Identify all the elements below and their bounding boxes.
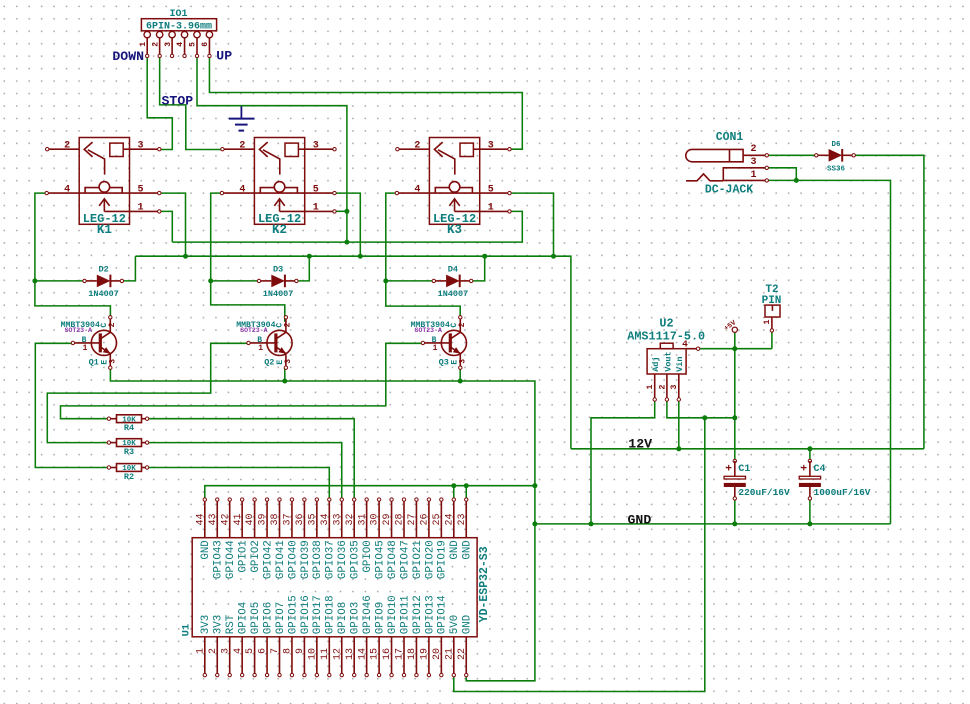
svg-text:GND: GND (449, 540, 461, 559)
svg-text:Vin: Vin (675, 356, 685, 371)
svg-text:41: 41 (233, 513, 244, 525)
svg-text:3: 3 (313, 140, 319, 151)
svg-text:25: 25 (432, 513, 443, 525)
relay K2 pin 3 (305, 148, 335, 150)
wire R4 right to U1 GPIO35 (147, 419, 354, 500)
IC U1 pin 13 GPIO3 (353, 637, 355, 675)
svg-text:8: 8 (283, 648, 294, 654)
IC U1 pin 22 GND (465, 637, 467, 675)
regulator U2 pin 3 Vin (678, 374, 680, 400)
svg-text:Adj: Adj (651, 356, 661, 371)
relay K2 pin 2 (222, 148, 254, 150)
svg-text:GPIO41: GPIO41 (275, 540, 287, 579)
wire K1 pin4 to D2 anode and Q1 collector (35, 193, 111, 317)
svg-text:DOWN: DOWN (112, 49, 144, 64)
svg-text:D3: D3 (273, 265, 283, 275)
wire Q1 base to R2 (35, 343, 109, 467)
IC U1 pin 44 GND (204, 500, 206, 538)
resistor R3 10K (109, 442, 117, 444)
transistor Q1 (91, 330, 116, 355)
wire IO1 pin2 to K2 pin2 (STOP net) (160, 56, 223, 150)
svg-text:Q2: Q2 (264, 357, 274, 367)
svg-text:43: 43 (208, 513, 219, 525)
IC U1 pin 11 GPIO18 (328, 637, 330, 675)
wire C4 to 12V rail (809, 449, 811, 461)
wire relay common horizontal net (172, 211, 522, 242)
wire IO1 pin1 to K1 pin3 (DOWN net) (147, 56, 172, 150)
svg-text:R2: R2 (124, 472, 134, 482)
relay K3 pin 2 (397, 148, 429, 150)
svg-text:4: 4 (682, 339, 688, 350)
svg-text:STOP: STOP (162, 94, 194, 109)
svg-text:26: 26 (420, 513, 431, 525)
svg-text:GPIO35: GPIO35 (350, 540, 362, 579)
IC U1 pin 25 GPIO19 (440, 500, 442, 538)
wire GND rail (535, 523, 891, 525)
pin header T2 pin 1 (771, 317, 773, 330)
IC U1 pin 19 GPIO13 (428, 637, 430, 675)
svg-text:4: 4 (64, 184, 70, 195)
wire C4 to GND rail (809, 498, 811, 524)
IC U1 YD-ESP32-S3 (192, 538, 477, 637)
svg-text:42: 42 (220, 513, 231, 525)
svg-text:2: 2 (108, 322, 117, 327)
svg-text:GPIO9: GPIO9 (375, 602, 387, 634)
svg-text:Vout: Vout (663, 351, 673, 371)
svg-text:GPIO7: GPIO7 (275, 602, 287, 634)
svg-text:2: 2 (64, 140, 70, 151)
wire IO1 pin6 to K3 pin3 (UP net) (209, 56, 522, 149)
relay K2 pin 4 (222, 192, 255, 194)
svg-text:1: 1 (195, 648, 206, 654)
svg-text:GPIO45: GPIO45 (375, 540, 387, 579)
svg-text:37: 37 (283, 513, 294, 525)
IC U1 pin 34 GPIO37 (328, 500, 330, 538)
svg-text:2: 2 (284, 322, 293, 327)
wire K2 pin5 to coil-supply (335, 193, 361, 256)
wire CON1 pin2 to D6 anode (767, 154, 818, 156)
connector IO1 pin 3 (169, 31, 175, 37)
IC U1 pin 24 GND (453, 500, 455, 538)
svg-text:GPIO48: GPIO48 (387, 540, 399, 579)
IC U1 pin 33 GPIO36 (341, 500, 343, 538)
svg-text:3: 3 (164, 42, 173, 47)
resistor R4 10K (109, 418, 117, 420)
svg-text:13: 13 (345, 648, 356, 660)
IC U1 pin 38 GPIO41 (279, 500, 281, 538)
svg-text:18: 18 (407, 648, 418, 660)
svg-text:GND: GND (462, 540, 474, 559)
wire D4 anode (386, 280, 435, 282)
wire K1 pin1 to common net (160, 211, 173, 242)
relay K1 pin 5 (130, 192, 160, 194)
svg-text:5: 5 (313, 184, 319, 195)
svg-text:GPIO11: GPIO11 (399, 595, 411, 634)
svg-text:GPIO38: GPIO38 (312, 540, 324, 579)
wire K2 pin1 stub to riser (335, 210, 347, 212)
wire +5V flag stem (734, 332, 736, 348)
diode D2 (85, 280, 97, 282)
svg-text:Q3: Q3 (439, 357, 449, 367)
IC U1 pin 8 GPIO15 (291, 637, 293, 675)
svg-text:38: 38 (270, 513, 281, 525)
svg-text:GPIO43: GPIO43 (213, 540, 225, 579)
svg-text:28: 28 (395, 513, 406, 525)
IC U1 pin 18 GPIO12 (415, 637, 417, 675)
svg-text:22: 22 (457, 648, 468, 660)
svg-text:12: 12 (332, 648, 343, 660)
IC U1 pin 9 GPIO16 (303, 637, 305, 675)
svg-text:AMS1117-5.0: AMS1117-5.0 (627, 330, 705, 344)
svg-text:35: 35 (307, 513, 318, 525)
svg-text:6PIN-3.96mm: 6PIN-3.96mm (146, 22, 212, 33)
svg-text:CON1: CON1 (716, 131, 744, 144)
svg-text:SOT23-A: SOT23-A (65, 327, 92, 334)
wire Q3 emitter stub (459, 368, 461, 381)
svg-text:5: 5 (245, 648, 256, 654)
wire U2 pin1 GND (591, 400, 655, 524)
svg-text:GPIO13: GPIO13 (424, 595, 436, 634)
svg-text:1N4007: 1N4007 (263, 289, 294, 299)
wire U1 pin23 GND stub (465, 486, 467, 500)
svg-text:33: 33 (332, 513, 343, 525)
svg-text:2: 2 (239, 140, 245, 151)
svg-text:R4: R4 (124, 423, 134, 433)
net flag +5V (732, 327, 737, 332)
svg-text:1: 1 (645, 385, 655, 390)
IC U1 pin 5 GPIO5 (254, 637, 256, 675)
svg-text:GPIO46: GPIO46 (362, 595, 374, 634)
connector IO1 pin 5 (194, 31, 200, 37)
IC U1 pin 30 GPIO45 (378, 500, 380, 538)
svg-text:U1: U1 (181, 624, 193, 637)
svg-text:2: 2 (750, 144, 756, 155)
svg-text:D6: D6 (831, 141, 841, 149)
IC U1 pin 36 GPIO39 (303, 500, 305, 538)
wire R2 right to U1 GPIO37 (147, 468, 329, 500)
svg-text:1: 1 (313, 203, 319, 214)
svg-text:20: 20 (432, 648, 443, 660)
svg-text:GPIO19: GPIO19 (437, 540, 449, 579)
svg-text:1: 1 (139, 42, 148, 47)
svg-text:GPIO17: GPIO17 (312, 595, 324, 634)
resistor R2 10K (109, 467, 117, 469)
svg-text:GPIO21: GPIO21 (412, 540, 424, 579)
capacitor C1 (733, 459, 736, 462)
wire D2 cathode to coil-supply rail (122, 256, 135, 281)
svg-text:GPIO3: GPIO3 (350, 602, 362, 634)
svg-text:6: 6 (258, 648, 269, 654)
svg-text:GPIO10: GPIO10 (387, 595, 399, 634)
IC U1 pin 42 GPIO44 (229, 500, 231, 538)
svg-text:GPIO16: GPIO16 (300, 595, 312, 634)
connector IO1 (141, 19, 216, 31)
svg-text:6: 6 (201, 42, 210, 47)
svg-text:1N4007: 1N4007 (438, 289, 469, 299)
connector CON1 pin 3 (723, 168, 767, 181)
svg-text:40: 40 (245, 513, 256, 525)
relay K1 pin 2 (47, 148, 79, 150)
wire Q2 emitter stub (284, 368, 286, 381)
svg-text:32: 32 (345, 513, 356, 525)
svg-text:16: 16 (382, 648, 393, 660)
svg-text:GPIO0: GPIO0 (362, 540, 374, 572)
svg-text:SOT23-A: SOT23-A (415, 327, 442, 334)
svg-text:1N4007: 1N4007 (88, 289, 119, 299)
svg-text:GPIO1: GPIO1 (238, 540, 250, 572)
svg-text:9: 9 (295, 648, 306, 654)
IC U1 pin 16 GPIO10 (391, 637, 393, 675)
wire +5V vertical through C1 to GND rail (734, 349, 736, 461)
svg-text:3V3: 3V3 (213, 615, 225, 634)
svg-text:GND: GND (462, 615, 474, 634)
IC U1 pin 3 RST (229, 637, 231, 675)
svg-text:23: 23 (457, 513, 468, 525)
svg-text:1: 1 (762, 320, 772, 325)
svg-text:27: 27 (407, 513, 418, 525)
IC U1 pin 4 GPIO4 (241, 637, 243, 675)
wire R3 right to U1 GPIO36 (147, 443, 342, 500)
IC U1 pin 12 GPIO8 (341, 637, 343, 675)
svg-text:30: 30 (370, 513, 381, 525)
svg-text:GPIO8: GPIO8 (337, 602, 349, 634)
connector IO1 pin 1 (144, 31, 150, 37)
IC U1 pin 41 GPIO1 (241, 500, 243, 538)
svg-text:19: 19 (420, 648, 431, 660)
IC U1 pin 26 GPIO20 (428, 500, 430, 538)
svg-text:12V: 12V (628, 436, 652, 451)
svg-text:+: + (725, 463, 732, 475)
IC U1 pin 39 GPIO42 (266, 500, 268, 538)
svg-text:39: 39 (258, 513, 269, 525)
svg-text:+: + (800, 463, 807, 475)
svg-text:11: 11 (320, 648, 331, 660)
svg-text:GPIO18: GPIO18 (325, 595, 337, 634)
svg-text:GPIO2: GPIO2 (250, 540, 262, 572)
svg-text:36: 36 (295, 513, 306, 525)
connector CON1 pin 2 (743, 154, 767, 156)
svg-text:3: 3 (488, 140, 494, 151)
wire K3 pin5 to coil-supply (510, 193, 554, 256)
connector IO1 pin 6 (206, 31, 212, 37)
svg-text:3: 3 (669, 385, 679, 390)
svg-text:GND: GND (200, 540, 212, 559)
svg-text:K3: K3 (447, 223, 462, 237)
svg-text:17: 17 (395, 648, 406, 660)
IC U1 pin 32 GPIO35 (353, 500, 355, 538)
svg-text:4: 4 (176, 42, 185, 47)
svg-text:10: 10 (307, 648, 318, 660)
svg-text:SS36: SS36 (827, 166, 846, 174)
IC U1 pin 21 5V0 (453, 637, 455, 675)
relay K2 coil (254, 192, 304, 194)
diode D3 (259, 280, 271, 282)
svg-text:C4: C4 (814, 464, 826, 475)
wire D3 cathode to coil-supply (297, 256, 309, 281)
svg-text:1: 1 (138, 203, 144, 214)
wire U2 pin4 to T2 (698, 348, 772, 350)
wire 12V rail (571, 448, 924, 450)
svg-text:2: 2 (208, 648, 219, 654)
relay K3 pin 3 (480, 148, 510, 150)
IC U1 pin 40 GPIO2 (254, 500, 256, 538)
wire coil-supply horizontal net (135, 256, 571, 449)
relay K1 pin 1 (104, 210, 159, 212)
wire U1 pin44 GND to GND riser (205, 486, 535, 500)
connector IO1 pin 2 (156, 31, 162, 37)
wire U1 pin21 5V0 to +5V net (454, 418, 705, 692)
diode D4 (434, 280, 446, 282)
transistor Q2 (267, 330, 292, 355)
svg-text:GND: GND (628, 512, 652, 527)
svg-text:GPIO20: GPIO20 (424, 540, 436, 579)
IC U1 pin 31 GPIO0 (366, 500, 368, 538)
svg-text:5V0: 5V0 (449, 615, 461, 634)
svg-text:21: 21 (444, 648, 455, 660)
svg-text:GPIO42: GPIO42 (262, 540, 274, 579)
svg-text:31: 31 (357, 513, 368, 525)
svg-text:K2: K2 (272, 223, 287, 237)
relay K3 pin 1 (455, 210, 510, 212)
svg-text:RST: RST (225, 614, 237, 634)
svg-text:4: 4 (239, 184, 245, 195)
svg-text:GPIO5: GPIO5 (250, 602, 262, 634)
svg-text:2: 2 (458, 322, 467, 327)
svg-text:3: 3 (109, 359, 118, 364)
svg-text:GPIO40: GPIO40 (287, 540, 299, 579)
IC U1 pin 7 GPIO7 (279, 637, 281, 675)
svg-text:5: 5 (138, 184, 144, 195)
wire CON1 pin3 jog (767, 168, 797, 181)
wire Q2 base to R3 (47, 343, 247, 442)
wire U2 pin3 Vin to 12V rail (678, 400, 680, 449)
wire D2 anode (35, 280, 85, 282)
connector IO1 pin 4 (181, 31, 187, 37)
IC U1 pin 15 GPIO9 (378, 637, 380, 675)
IC U1 pin 43 GPIO43 (216, 500, 218, 538)
wire U2 pin2 Vout to +5V net (667, 400, 735, 418)
wire D6 cathode to 12V rail (853, 155, 924, 449)
IC U1 pin 23 GND (465, 500, 467, 538)
svg-text:2: 2 (151, 42, 160, 47)
regulator U2 pin 4 (686, 348, 698, 350)
relay K2 pin 5 (305, 192, 335, 194)
svg-text:DC-JACK: DC-JACK (705, 184, 753, 197)
svg-text:Q1: Q1 (89, 357, 99, 367)
svg-text:IO1: IO1 (169, 9, 187, 20)
regulator U2 AMS1117-5.0 (647, 349, 686, 374)
regulator U2 pin 2 Vout (666, 374, 668, 400)
svg-text:GPIO12: GPIO12 (412, 595, 424, 634)
svg-text:GPIO6: GPIO6 (262, 602, 274, 634)
wire CON1 pin1 to GND rail (767, 180, 891, 524)
svg-text:4: 4 (414, 184, 420, 195)
IC U1 pin 17 GPIO11 (403, 637, 405, 675)
wire K1 pin5 to coil-supply (159, 193, 185, 256)
svg-text:4: 4 (233, 648, 244, 654)
svg-text:GPIO37: GPIO37 (325, 540, 337, 579)
svg-text:1: 1 (258, 344, 263, 353)
svg-text:GPIO14: GPIO14 (437, 595, 449, 634)
IC U1 pin 20 GPIO14 (440, 637, 442, 675)
svg-text:GPIO4: GPIO4 (238, 602, 250, 634)
wire Q3 base to R4 (61, 343, 423, 418)
svg-text:3: 3 (750, 157, 756, 168)
svg-text:34: 34 (320, 513, 331, 525)
svg-text:GPIO36: GPIO36 (337, 540, 349, 579)
svg-text:24: 24 (444, 513, 455, 525)
svg-text:GPIO44: GPIO44 (225, 540, 237, 579)
svg-text:D2: D2 (98, 265, 108, 275)
connector CON1 switch lever (686, 174, 723, 181)
IC U1 pin 1 3V3 (204, 637, 206, 675)
diode D6 (816, 154, 828, 156)
relay K1 coil (79, 192, 129, 194)
svg-text:44: 44 (195, 513, 206, 525)
svg-text:GPIO39: GPIO39 (300, 540, 312, 579)
IC U1 pin 6 GPIO6 (266, 637, 268, 675)
wire T2 pin1 (771, 330, 773, 348)
svg-text:5: 5 (189, 42, 198, 47)
svg-text:R3: R3 (124, 447, 134, 457)
IC U1 pin 29 GPIO48 (391, 500, 393, 538)
relay K1 pin 4 (47, 192, 79, 194)
regulator U2 pin 1 Adj (654, 374, 656, 400)
relay K2 (254, 138, 304, 225)
connector CON1 pin 1 (723, 179, 767, 181)
IC U1 pin 2 3V3 (216, 637, 218, 675)
wire K2 pin4 to D3 anode and Q2 collector (211, 193, 285, 322)
relay K3 pin 5 (480, 192, 510, 194)
svg-text:3: 3 (138, 140, 144, 151)
svg-text:220uF/16V: 220uF/16V (738, 487, 790, 498)
wire emitters ground bus (110, 368, 535, 681)
relay K2 pin 1 (280, 210, 335, 212)
svg-text:2: 2 (414, 140, 420, 151)
svg-text:3: 3 (284, 359, 293, 364)
svg-text:1: 1 (83, 344, 88, 353)
relay K3 (429, 138, 479, 225)
svg-text:GPIO47: GPIO47 (399, 540, 411, 579)
IC U1 pin 37 GPIO40 (291, 500, 293, 538)
svg-text:2: 2 (657, 385, 667, 390)
relay K3 pin 4 (397, 192, 430, 194)
svg-text:14: 14 (357, 648, 368, 660)
IC U1 pin 28 GPIO47 (403, 500, 405, 538)
svg-text:GPIO15: GPIO15 (287, 595, 299, 634)
svg-text:K1: K1 (97, 223, 112, 237)
transistor Q3 (441, 330, 466, 355)
wire IO1 pin5 to K2 pin1 net (197, 56, 347, 242)
svg-text:5: 5 (488, 184, 494, 195)
svg-text:3V3: 3V3 (200, 615, 212, 634)
svg-text:UP: UP (216, 49, 232, 64)
svg-text:D4: D4 (448, 265, 458, 275)
IC U1 pin 14 GPIO46 (366, 637, 368, 675)
svg-text:1: 1 (750, 170, 756, 181)
svg-text:C1: C1 (738, 464, 750, 475)
svg-text:7: 7 (270, 648, 281, 654)
svg-text:1: 1 (488, 203, 494, 214)
junction dots (32, 278, 37, 283)
svg-text:29: 29 (382, 513, 393, 525)
relay K1 (79, 138, 129, 225)
wire U1 pin24 GND stub (453, 486, 455, 500)
svg-text:3: 3 (459, 359, 468, 364)
wire K3 pin4 to D4 anode and Q3 collector (386, 193, 460, 317)
svg-text:U2: U2 (659, 316, 673, 330)
relay K3 coil (429, 192, 479, 194)
